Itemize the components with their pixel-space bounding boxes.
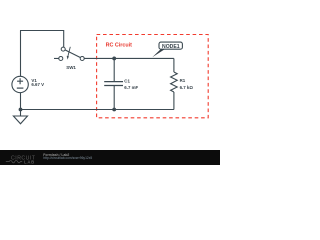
wire: top rail horizontal (20, 30, 64, 32)
svg-text:6.7 kΩ: 6.7 kΩ (180, 85, 194, 90)
svg-text:R1: R1 (180, 78, 186, 83)
svg-text:http://circuitlab.com/sxzrr96y: http://circuitlab.com/sxzrr96y12x5 (43, 156, 92, 160)
footer watermark bar (0, 150, 220, 165)
wire: capacitor top lead (113, 58, 115, 81)
junction node at capacitor top (112, 57, 116, 61)
wire: resistor top lead (173, 58, 175, 72)
svg-text:SW1: SW1 (66, 65, 76, 70)
throw terminal (right) (80, 56, 84, 60)
svg-text:LAB: LAB (24, 159, 35, 164)
resistor R1 (171, 72, 178, 92)
wire: capacitor bottom lead (113, 86, 115, 110)
open throw stub wire (54, 57, 59, 59)
svg-text:NODE1: NODE1 (162, 44, 180, 50)
pole terminal (top) (61, 47, 65, 51)
NODE1 label box (159, 42, 182, 49)
NODE1 callout leader (152, 49, 164, 57)
wire: V1 bottom to ground node (20, 93, 22, 117)
RC Circuit dashed enclosure box (97, 35, 209, 118)
lever (65, 50, 80, 58)
svg-text:6.7 mF: 6.7 mF (124, 85, 138, 90)
capacitor C1 (104, 82, 123, 86)
junction node at ground (19, 108, 23, 112)
svg-text:C1: C1 (124, 79, 130, 84)
wire: drop to switch pole (63, 30, 65, 47)
voltage source V1 (12, 76, 28, 92)
actuator arrow (68, 47, 71, 57)
switch SW1 (54, 47, 84, 61)
wire: switch to resistor top (main node wire) (84, 57, 174, 59)
open throw terminal (left) (59, 56, 63, 60)
svg-text:RC Circuit: RC Circuit (106, 43, 133, 49)
CircuitLab logo (6, 156, 36, 165)
wire: resistor bottom lead (173, 92, 175, 110)
wire: V1 top to top rail (20, 31, 22, 77)
wire: bottom return rail (21, 109, 174, 111)
ground (13, 116, 27, 124)
junction node at capacitor bottom (112, 108, 116, 112)
svg-text:6.67 V: 6.67 V (31, 82, 44, 87)
